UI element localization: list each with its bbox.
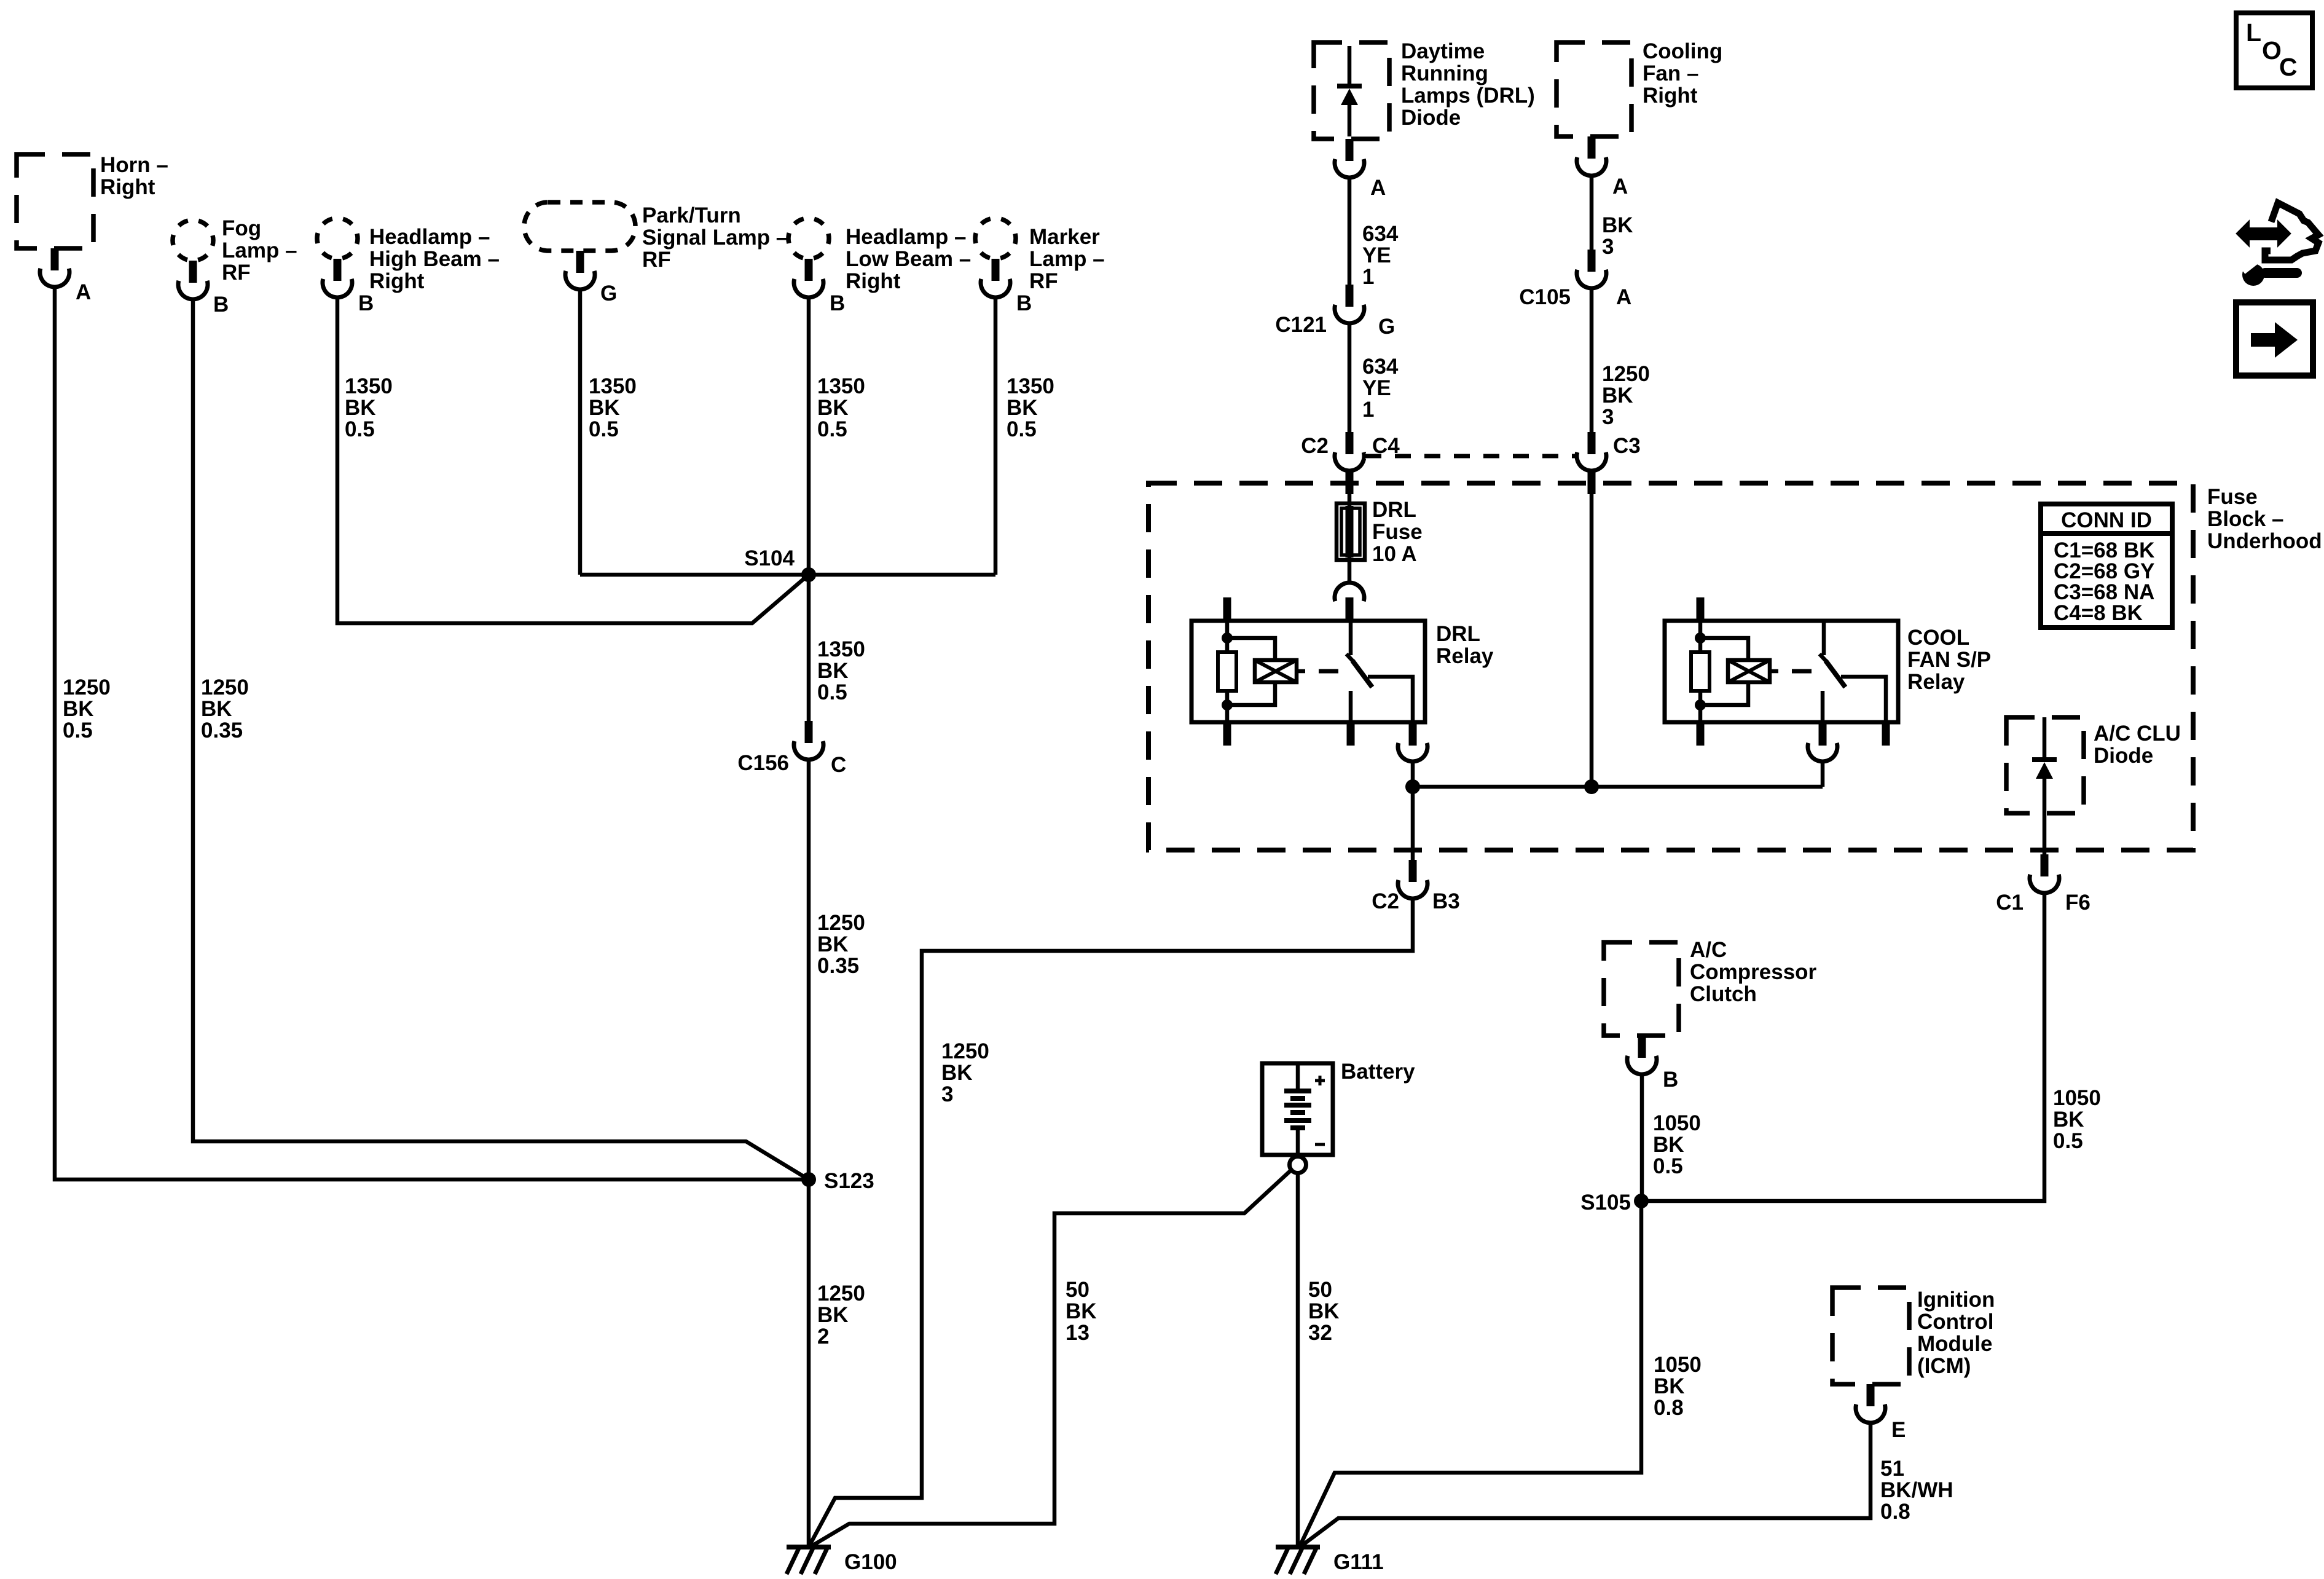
- DRL relay output cup: [1398, 743, 1427, 762]
- svg-text:RF: RF: [642, 248, 671, 272]
- svg-text:0.8: 0.8: [1880, 1500, 1910, 1524]
- svg-text:G111: G111: [1333, 1550, 1384, 1574]
- svg-text:C2: C2: [1372, 889, 1399, 913]
- svg-text:C2: C2: [1301, 434, 1329, 458]
- svg-text:BK: BK: [1654, 1374, 1685, 1398]
- connector pin (DRL diode) cup: [1335, 159, 1364, 178]
- COOL FAN relay coil branch wires: [1700, 638, 1748, 705]
- battery negative terminal circle: [1290, 1157, 1306, 1173]
- svg-text:13: 13: [1066, 1321, 1089, 1345]
- svg-text:1350: 1350: [589, 374, 637, 398]
- svg-text:1250: 1250: [63, 675, 111, 699]
- svg-text:G100: G100: [844, 1550, 897, 1574]
- junction dot at DRL output / B3 wire: [1405, 779, 1420, 794]
- svg-text:0.5: 0.5: [1653, 1154, 1683, 1178]
- wire Low Beam B down through S104 to C156: [807, 297, 811, 721]
- svg-text:C4=8 BK: C4=8 BK: [2054, 601, 2143, 625]
- COOL FAN relay right tick (unused): [1882, 722, 1890, 746]
- connector pin (Cooling Fan) cup: [1577, 157, 1606, 176]
- DRL relay output branch wire: [1368, 677, 1413, 722]
- DRL relay resistor: [1218, 652, 1236, 691]
- svg-text:Block –: Block –: [2207, 507, 2284, 531]
- svg-text:Right: Right: [846, 269, 901, 293]
- component Park/Turn Signal Lamp - RF (dashed stadium): [524, 202, 635, 251]
- connector pin (Horn) cup: [40, 269, 69, 287]
- ground G100 symbol: [787, 1547, 831, 1574]
- component Headlamp - Low Beam - Right (dashed circle): [788, 218, 829, 259]
- svg-text:Fog: Fog: [222, 216, 261, 240]
- DRL relay switch lower contact: [1349, 691, 1353, 722]
- icon right arrow: [2251, 322, 2298, 358]
- svg-text:1250: 1250: [817, 1282, 865, 1305]
- svg-text:Ignition: Ignition: [1917, 1288, 1995, 1312]
- svg-text:E: E: [1891, 1418, 1906, 1442]
- wire C156 to S123 to G100: [807, 760, 811, 1547]
- svg-text:BK: BK: [345, 396, 376, 420]
- ground G111 symbol: [1276, 1547, 1320, 1574]
- connector C1/F6 tick: [2041, 854, 2049, 876]
- svg-text:L: L: [2246, 18, 2261, 47]
- connector C3 cup: [1577, 452, 1606, 471]
- COOL FAN relay switch lower contact: [1821, 691, 1825, 722]
- svg-text:Headlamp –: Headlamp –: [369, 225, 490, 249]
- svg-text:1350: 1350: [817, 374, 865, 398]
- svg-text:A/C: A/C: [1690, 938, 1727, 962]
- component Fog Lamp - RF (dashed circle): [173, 220, 213, 261]
- svg-text:Daytime: Daytime: [1401, 39, 1485, 63]
- component Horn - Right (dashed box): [17, 154, 93, 248]
- svg-text:Cooling: Cooling: [1643, 39, 1722, 63]
- wire Park/Turn G to S104: [578, 289, 583, 575]
- connector pin (High Beam) cup: [323, 279, 352, 297]
- svg-text:Lamp –: Lamp –: [1029, 247, 1105, 271]
- connector pin (Horn) tick: [51, 248, 59, 270]
- svg-text:0.5: 0.5: [589, 417, 619, 441]
- svg-text:BK: BK: [1653, 1133, 1684, 1157]
- splice S123: [801, 1172, 816, 1187]
- svg-text:RF: RF: [1029, 269, 1058, 293]
- wire C3 down into fuse block to relay bus: [1590, 471, 1594, 787]
- svg-text:0.8: 0.8: [1654, 1396, 1684, 1420]
- connector pin (High Beam) tick: [334, 259, 342, 281]
- svg-text:1050: 1050: [1654, 1353, 1702, 1377]
- svg-text:YE: YE: [1362, 243, 1391, 267]
- COOL FAN relay coil pin tick (top): [1697, 597, 1705, 621]
- COOL FAN relay output tick: [1819, 722, 1827, 746]
- connector C121 cup: [1335, 305, 1364, 323]
- boundary feed-through tick at C4 wire: [1346, 472, 1354, 494]
- svg-text:3: 3: [941, 1082, 953, 1106]
- svg-text:C156: C156: [737, 751, 789, 775]
- svg-text:B: B: [1663, 1068, 1678, 1092]
- wire A/C clutch B to S105: [1640, 1074, 1644, 1201]
- svg-text:1250: 1250: [941, 1039, 989, 1063]
- svg-text:BK: BK: [201, 697, 232, 721]
- svg-text:High Beam –: High Beam –: [369, 247, 500, 271]
- COOL FAN relay switch blade: [1820, 654, 1845, 687]
- svg-text:A: A: [76, 280, 91, 304]
- svg-text:634: 634: [1362, 222, 1399, 246]
- relay DRL Relay box: [1191, 621, 1425, 722]
- svg-text:BK: BK: [1308, 1299, 1340, 1323]
- svg-text:BK: BK: [1066, 1299, 1097, 1323]
- svg-text:51: 51: [1880, 1457, 1904, 1481]
- svg-text:BK: BK: [63, 697, 94, 721]
- svg-text:BK: BK: [589, 396, 620, 420]
- connector pin (Low Beam) tick: [805, 259, 813, 281]
- DRL relay coil stub and dashed actuator link: [1297, 669, 1338, 674]
- battery Battery symbol: [1262, 1063, 1333, 1155]
- svg-text:1050: 1050: [2053, 1086, 2101, 1110]
- diode symbol inside DRL diode box: [1337, 46, 1362, 136]
- svg-text:S104: S104: [744, 546, 795, 570]
- splice S105: [1634, 1194, 1649, 1208]
- connector pin (Low Beam) cup: [794, 279, 823, 297]
- svg-text:3: 3: [1602, 235, 1614, 259]
- svg-text:Fuse: Fuse: [1372, 520, 1423, 544]
- connector pin (Marker) cup: [981, 279, 1010, 297]
- COOL FAN relay switch fixed contact (top): [1822, 621, 1826, 655]
- svg-text:1: 1: [1362, 398, 1374, 422]
- icon LOC box: [2236, 13, 2312, 88]
- COOL FAN relay resistor: [1691, 652, 1710, 691]
- svg-text:Underhood: Underhood: [2207, 529, 2322, 553]
- svg-text:Clutch: Clutch: [1690, 982, 1757, 1006]
- connector pin (DRL diode) tick: [1346, 139, 1354, 161]
- wire battery negative to G100 (50 BK 13): [810, 1169, 1292, 1547]
- diode symbol inside A/C CLU diode box: [2032, 717, 2057, 854]
- wire DRL diode A to C121: [1348, 178, 1352, 285]
- component Cooling Fan - Right (dashed box): [1557, 42, 1631, 136]
- svg-text:YE: YE: [1362, 376, 1391, 400]
- wire B3 down from bus to connector: [1411, 787, 1415, 860]
- svg-text:BK: BK: [2053, 1108, 2084, 1132]
- svg-text:C: C: [831, 753, 846, 777]
- COOL FAN relay right branch wire: [1841, 677, 1886, 722]
- svg-text:Diode: Diode: [1401, 106, 1461, 130]
- svg-text:1: 1: [1362, 265, 1374, 289]
- svg-text:Relay: Relay: [1907, 670, 1965, 694]
- svg-text:A: A: [1370, 176, 1386, 200]
- svg-text:CONN ID: CONN ID: [2061, 508, 2152, 532]
- DRL relay bottom tick (lower contact): [1347, 722, 1355, 746]
- svg-text:C3: C3: [1613, 434, 1641, 458]
- component A/C CLU Diode (dashed box): [2006, 717, 2084, 813]
- svg-text:50: 50: [1066, 1278, 1089, 1302]
- svg-text:BK: BK: [817, 932, 849, 956]
- svg-text:1250: 1250: [1602, 362, 1650, 386]
- svg-text:1350: 1350: [817, 637, 865, 661]
- svg-text:C1: C1: [1996, 891, 2024, 915]
- svg-text:B: B: [830, 291, 845, 315]
- svg-text:G: G: [1378, 315, 1395, 339]
- fuse DRL Fuse 10 A symbol: [1337, 503, 1365, 560]
- connector C156 cup: [794, 741, 823, 760]
- svg-text:Park/Turn: Park/Turn: [642, 203, 741, 227]
- svg-text:0.35: 0.35: [817, 954, 859, 978]
- svg-text:Fuse: Fuse: [2207, 485, 2258, 509]
- wire COOL FAN relay output to bus: [1821, 762, 1825, 787]
- connector pin (Park/Turn) tick: [576, 251, 584, 273]
- svg-text:Control: Control: [1917, 1310, 1993, 1334]
- connector C105 tick: [1588, 250, 1596, 272]
- dashed link between connector C4 and C3: [1365, 454, 1576, 459]
- svg-text:B: B: [213, 293, 229, 317]
- COOL FAN relay coil (box with X): [1728, 660, 1770, 682]
- svg-text:1250: 1250: [201, 675, 249, 699]
- fuse output arc (cap): [1335, 583, 1364, 601]
- connector pin (Fog Lamp) cup: [178, 281, 208, 299]
- wire High Beam B to S104: [337, 297, 809, 623]
- svg-text:BK: BK: [817, 659, 849, 683]
- svg-text:C: C: [2279, 53, 2298, 81]
- wire ICM E to G111 (51 BK/WH 0.8): [1301, 1423, 1871, 1546]
- svg-text:S123: S123: [824, 1169, 874, 1193]
- svg-text:32: 32: [1308, 1321, 1332, 1345]
- svg-text:A/C CLU: A/C CLU: [2094, 722, 2181, 746]
- svg-text:G: G: [600, 282, 617, 305]
- component Ignition Control Module ICM (dashed box): [1832, 1288, 1909, 1384]
- COOL FAN relay coil pin wire and junction dots: [1695, 621, 1706, 722]
- connector C2/C4 tick: [1346, 432, 1354, 454]
- connector C2/C4 cup: [1335, 452, 1364, 471]
- wire C2/C4 cup into DRL fuse: [1348, 471, 1352, 583]
- connector C156 tick: [805, 721, 813, 743]
- svg-text:(ICM): (ICM): [1917, 1354, 1971, 1378]
- svg-text:0.5: 0.5: [1007, 417, 1037, 441]
- wire C105 to C3: [1590, 288, 1594, 432]
- component Headlamp - High Beam - Right (dashed circle): [317, 218, 358, 259]
- fuse output tick into DRL relay: [1346, 597, 1354, 621]
- svg-text:F6: F6: [2065, 891, 2090, 915]
- svg-text:DRL: DRL: [1436, 622, 1480, 646]
- wire DRL relay output to bus: [1411, 762, 1415, 787]
- svg-text:2: 2: [817, 1325, 829, 1349]
- wire Fog Lamp B to S123: [193, 299, 809, 1179]
- COOL FAN relay output cup: [1808, 743, 1837, 762]
- svg-text:Fan –: Fan –: [1643, 61, 1698, 85]
- svg-text:BK/WH: BK/WH: [1880, 1478, 1953, 1502]
- wire S104 horizontal bus: [580, 573, 995, 577]
- svg-text:Battery: Battery: [1341, 1060, 1415, 1084]
- connector C105 cup: [1577, 270, 1606, 288]
- component Marker Lamp - RF (dashed circle): [975, 218, 1016, 259]
- svg-text:COOL: COOL: [1907, 626, 1969, 650]
- wire Horn A to S123: [55, 287, 809, 1179]
- boundary feed-through tick at C3 wire: [1588, 472, 1596, 494]
- component A/C Compressor Clutch (dashed box): [1604, 942, 1679, 1036]
- svg-text:Right: Right: [1643, 84, 1698, 108]
- svg-text:0.35: 0.35: [201, 719, 243, 742]
- connector C2/B3 cup: [1398, 880, 1427, 899]
- DRL relay coil (box with X): [1255, 660, 1297, 682]
- svg-text:Marker: Marker: [1029, 225, 1100, 249]
- wire Marker Lamp B to S104: [994, 297, 998, 575]
- svg-text:0.5: 0.5: [2053, 1129, 2083, 1153]
- svg-text:BK: BK: [1602, 213, 1633, 237]
- wire C121 to C2/C4: [1348, 323, 1352, 432]
- svg-text:1350: 1350: [345, 374, 393, 398]
- connector pin (Marker) tick: [992, 259, 1000, 281]
- svg-text:0.5: 0.5: [817, 417, 847, 441]
- component Daytime Running Lamps (DRL) Diode (dashed box): [1314, 42, 1389, 139]
- svg-text:FAN S/P: FAN S/P: [1907, 648, 1991, 672]
- connector C1/F6 cup: [2030, 875, 2059, 893]
- svg-text:BK: BK: [817, 1303, 849, 1327]
- svg-text:B: B: [1016, 291, 1032, 315]
- splice S104: [801, 567, 816, 582]
- svg-text:BK: BK: [817, 396, 849, 420]
- CONN ID table: [2041, 504, 2172, 628]
- svg-text:Lamp –: Lamp –: [222, 238, 297, 262]
- svg-text:10 A: 10 A: [1372, 542, 1417, 566]
- svg-text:BK: BK: [941, 1061, 973, 1085]
- connector pin (Fog Lamp) tick: [189, 261, 197, 283]
- svg-text:C105: C105: [1519, 285, 1571, 309]
- svg-text:Low Beam –: Low Beam –: [846, 247, 971, 271]
- svg-text:Relay: Relay: [1436, 644, 1494, 668]
- icon arrow box: [2236, 302, 2313, 376]
- icon vehicle outline with double arrow and wrench: [2237, 203, 2318, 286]
- svg-text:C121: C121: [1275, 313, 1327, 337]
- svg-text:0.5: 0.5: [63, 719, 93, 742]
- DRL relay switch fixed contact (top): [1349, 621, 1353, 655]
- svg-text:Signal Lamp –: Signal Lamp –: [642, 226, 788, 250]
- svg-text:1250: 1250: [817, 911, 865, 935]
- svg-text:Diode: Diode: [2094, 744, 2153, 768]
- svg-text:B: B: [358, 291, 374, 315]
- svg-text:1350: 1350: [1007, 374, 1054, 398]
- svg-text:0.5: 0.5: [345, 417, 375, 441]
- connector C3 tick: [1588, 432, 1596, 454]
- DRL relay coil pin tick (top): [1223, 597, 1231, 621]
- svg-text:Module: Module: [1917, 1332, 1992, 1356]
- svg-text:A: A: [1616, 285, 1631, 309]
- connector pin (Cooling Fan) tick: [1588, 136, 1596, 159]
- svg-text:S105: S105: [1580, 1191, 1631, 1215]
- DRL relay coil pin wire and junction dots: [1222, 621, 1233, 722]
- connector C121 tick: [1346, 285, 1354, 307]
- connector C2/B3 tick: [1409, 860, 1417, 882]
- connector pin (A/C Compressor Clutch) tick: [1638, 1036, 1646, 1058]
- COOL FAN relay coil stub and dashed actuator link: [1770, 669, 1812, 674]
- wire Cooling Fan A to C105: [1590, 176, 1594, 250]
- DRL relay output tick: [1409, 722, 1417, 746]
- DRL relay switch blade: [1346, 654, 1372, 687]
- wire S105 to G111 (1050 BK 0.8): [1300, 1201, 1641, 1545]
- svg-text:Lamps (DRL): Lamps (DRL): [1401, 84, 1535, 108]
- svg-text:1050: 1050: [1653, 1111, 1701, 1135]
- svg-text:50: 50: [1308, 1278, 1332, 1302]
- svg-text:DRL: DRL: [1372, 498, 1416, 522]
- svg-text:3: 3: [1602, 405, 1614, 429]
- svg-text:0.5: 0.5: [817, 680, 847, 704]
- svg-text:Compressor: Compressor: [1690, 960, 1817, 984]
- wire battery negative to G111 (50 BK 32): [1296, 1173, 1300, 1547]
- junction dot at C3 wire / bus: [1584, 779, 1599, 794]
- svg-text:BK: BK: [1007, 396, 1038, 420]
- svg-text:Running: Running: [1401, 61, 1488, 85]
- svg-text:RF: RF: [222, 261, 251, 285]
- connector pin (ICM) cup: [1856, 1404, 1885, 1423]
- DRL relay coil branch wires: [1227, 638, 1275, 705]
- svg-text:BK: BK: [1602, 384, 1633, 408]
- relay COOL FAN S/P Relay box: [1665, 621, 1898, 722]
- svg-text:A: A: [1612, 175, 1628, 199]
- Fuse Block - Underhood dashed boundary: [1148, 483, 2193, 850]
- svg-text:Headlamp –: Headlamp –: [846, 225, 966, 249]
- svg-text:634: 634: [1362, 355, 1399, 379]
- svg-text:Right: Right: [369, 269, 425, 293]
- svg-text:B3: B3: [1432, 889, 1460, 913]
- connector pin (ICM) tick: [1867, 1384, 1875, 1406]
- svg-text:Right: Right: [100, 175, 155, 199]
- connector pin (Park/Turn) cup: [565, 271, 595, 289]
- DRL relay bottom tick (coil pin): [1223, 722, 1231, 746]
- wire B3 to G100 (1250 BK 3): [809, 899, 1413, 1547]
- COOL FAN relay bottom tick (coil pin): [1697, 722, 1705, 746]
- icon LOC letters: [2246, 18, 2298, 81]
- wire S105 to C1/F6 (up right): [1641, 893, 2044, 1201]
- svg-text:Horn –: Horn –: [100, 153, 168, 177]
- connector pin (A/C Compressor Clutch) cup: [1627, 1056, 1657, 1074]
- wire relay output bus (horizontal): [1413, 785, 1823, 789]
